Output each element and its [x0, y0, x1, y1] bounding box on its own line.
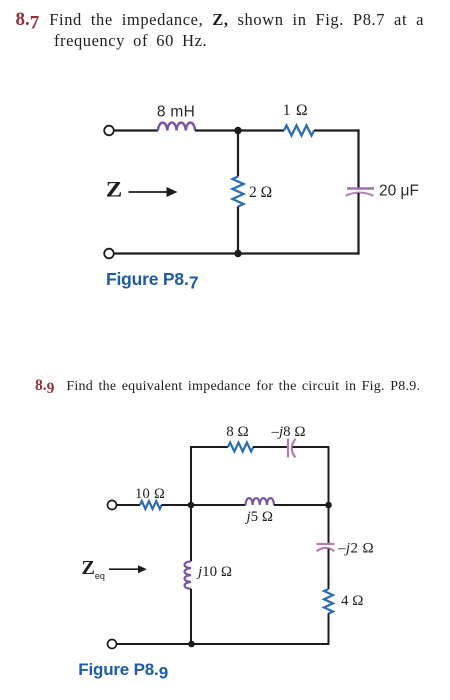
- wire capacitor -j2 to resistor 4ohm: [328, 549, 330, 589]
- wire capacitor to top-right corner: [293, 446, 330, 448]
- svg-text:j5 Ω: j5 Ω: [245, 509, 274, 525]
- svg-text:4 Ω: 4 Ω: [341, 593, 363, 609]
- wire resistor 10ohm to node: [162, 504, 192, 506]
- svg-text:8 mH: 8 mH: [157, 104, 195, 121]
- svg-text:2 Ω: 2 Ω: [249, 184, 272, 201]
- wire top-left to inductor: [114, 129, 158, 131]
- wire node down to resistor 2ohm: [237, 131, 239, 177]
- wire inductor to resistor 1ohm: [195, 129, 284, 131]
- bottom wire: [114, 252, 360, 254]
- resistor 10 ohm: [140, 501, 162, 509]
- resistor 1 ohm: [284, 126, 314, 136]
- left vertical wire top section: [190, 446, 192, 561]
- node right middle: [325, 502, 332, 509]
- svg-text:–j2 Ω: –j2 Ω: [337, 541, 374, 557]
- terminal lower-left: [104, 249, 114, 259]
- resistor 4 ohm: [324, 589, 333, 614]
- wire inductor j5 to right node: [274, 504, 329, 506]
- svg-text:20 μF: 20 μF: [379, 183, 419, 200]
- figure caption P8.9: [78, 661, 168, 678]
- wire capacitor down to bottom-right corner: [357, 193, 359, 255]
- node left middle: [188, 502, 195, 509]
- resistor 8 ohm: [228, 443, 253, 452]
- right vertical wire top section: [328, 446, 330, 544]
- inductor j5: [246, 498, 275, 505]
- terminal input top: [108, 501, 117, 510]
- inductor j10: [185, 561, 191, 589]
- wire right side down to capacitor: [357, 129, 359, 188]
- capacitor 20 uF top plate: [347, 187, 374, 189]
- wire resistor 2ohm to bottom: [237, 207, 239, 254]
- wire resistor to capacitor -j8: [253, 446, 287, 448]
- capacitor 20 uF curved plate: [346, 193, 374, 196]
- svg-text:–j8 Ω: –j8 Ω: [271, 424, 306, 440]
- svg-text:10 Ω: 10 Ω: [135, 486, 165, 502]
- resistor 2 ohm: [233, 177, 244, 207]
- svg-text:1 Ω: 1 Ω: [283, 102, 309, 119]
- problem 8.7 statement line 1: [16, 10, 425, 29]
- capacitor -j2 straight plate: [317, 543, 335, 545]
- figure caption P8.7: [106, 271, 198, 289]
- middle wire node to inductor j5: [191, 504, 246, 506]
- node bottom middle: [234, 250, 241, 257]
- svg-text:Zeq: Zeq: [82, 557, 105, 581]
- left vertical wire bottom section: [190, 589, 192, 644]
- inductor 8 mH: [158, 123, 195, 131]
- wire terminal to resistor 10ohm: [117, 504, 141, 506]
- arrow for Z: [129, 187, 178, 197]
- problem 8.7 statement line 2: [54, 33, 207, 50]
- wire top-left corner to resistor 8ohm: [191, 447, 228, 448]
- svg-text:8 Ω: 8 Ω: [226, 424, 248, 440]
- capacitor -j2 curved plate: [317, 548, 335, 551]
- node bottom: [188, 641, 195, 648]
- svg-text:Z: Z: [106, 177, 123, 202]
- terminal input bottom: [108, 640, 117, 649]
- bottom wire: [117, 643, 330, 645]
- svg-text:j10 Ω: j10 Ω: [196, 564, 232, 580]
- node top middle: [234, 127, 241, 134]
- arrow for Zeq: [109, 565, 147, 573]
- capacitor -j8 straight plate: [287, 439, 289, 458]
- wire resistor to top-right corner: [314, 129, 360, 131]
- wire resistor 4ohm to bottom-right corner: [328, 614, 330, 646]
- problem 8.9 statement: [35, 378, 420, 394]
- terminal upper-left: [104, 126, 114, 136]
- capacitor -j8 curved plate: [292, 439, 296, 458]
